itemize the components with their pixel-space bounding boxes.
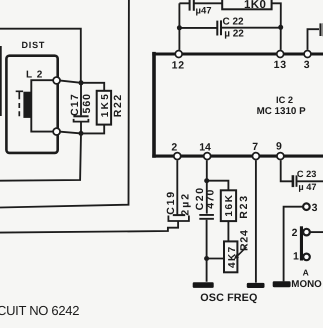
svg-text:CUIT NO 6242: CUIT NO 6242 bbox=[0, 303, 79, 318]
svg-text:R23: R23 bbox=[238, 194, 250, 219]
svg-text:MONO: MONO bbox=[291, 279, 322, 290]
svg-text:3: 3 bbox=[312, 202, 318, 214]
svg-text:L2: L2 bbox=[26, 70, 47, 81]
svg-text:1: 1 bbox=[293, 250, 299, 262]
svg-text:C 22: C 22 bbox=[223, 17, 245, 28]
svg-text:OSC FREQ: OSC FREQ bbox=[200, 292, 257, 304]
svg-text:2: 2 bbox=[171, 142, 177, 154]
svg-text:9: 9 bbox=[276, 140, 282, 152]
svg-text:470: 470 bbox=[205, 189, 217, 209]
svg-text:13: 13 bbox=[274, 59, 287, 71]
svg-text:µ 22: µ 22 bbox=[224, 29, 244, 40]
svg-text:1K5: 1K5 bbox=[100, 92, 111, 118]
svg-text:C19: C19 bbox=[165, 190, 177, 215]
svg-text:2µ2: 2µ2 bbox=[179, 192, 191, 216]
svg-text:R22: R22 bbox=[112, 93, 124, 117]
svg-text:C17: C17 bbox=[69, 93, 81, 116]
svg-text:IC 2: IC 2 bbox=[276, 95, 293, 105]
svg-text:560: 560 bbox=[81, 93, 93, 114]
svg-text:16K: 16K bbox=[224, 193, 235, 216]
svg-text:2: 2 bbox=[292, 227, 298, 239]
svg-text:14: 14 bbox=[199, 141, 211, 153]
svg-text:C 23: C 23 bbox=[297, 169, 316, 179]
svg-text:DIST: DIST bbox=[22, 40, 46, 50]
svg-text:µ47: µ47 bbox=[196, 6, 212, 17]
svg-text:3: 3 bbox=[304, 59, 310, 71]
svg-text:12: 12 bbox=[172, 59, 185, 71]
svg-text:1K0: 1K0 bbox=[244, 0, 266, 11]
svg-text:MC 1310 P: MC 1310 P bbox=[257, 106, 306, 117]
svg-text:4K7: 4K7 bbox=[227, 245, 238, 268]
svg-text:µ 47: µ 47 bbox=[298, 182, 316, 192]
svg-text:R24: R24 bbox=[239, 229, 251, 251]
svg-text:7: 7 bbox=[252, 141, 258, 153]
svg-text:A: A bbox=[303, 268, 309, 278]
